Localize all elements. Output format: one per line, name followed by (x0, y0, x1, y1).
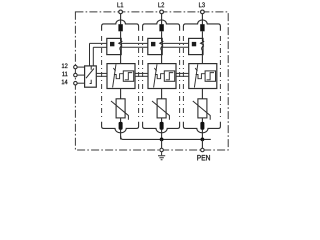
module boundary dash-dot right edge pole L2 (179, 36, 181, 118)
wire riser remote contact to lower bus (92, 47, 94, 66)
wire disconnector to spark gap pole L1 (120, 55, 122, 64)
wire spark gap to varistor pole L1 (120, 89, 122, 99)
changeover contact symbol (86, 66, 94, 84)
terminal 12 (74, 65, 78, 69)
gas discharge tube G1 pole L1 (119, 122, 123, 130)
monitoring bus upper line segment 1 (90, 42, 107, 44)
varistor diagonal stroke pole L1 (111, 101, 128, 120)
wire terminal 12 to contact box (77, 66, 85, 68)
module bottom edge with arc hop pole L2 (143, 122, 180, 133)
module boundary dash-dot right edge pole L3 (219, 36, 221, 118)
ground symbol (158, 152, 165, 160)
trigger bus upper line segment 2 (135, 72, 148, 74)
fuse F3 thermal disconnector element pole L3 (200, 24, 204, 31)
follow-current limiter square pole L1 (123, 71, 133, 81)
monitoring bus lower line segment 3 (162, 46, 188, 48)
module top edge with arc hop over pole L3 conductor (183, 20, 220, 31)
gas discharge tube G3 pole L3 (200, 122, 204, 130)
terminal 11 (74, 73, 78, 77)
disconnection device with status indicator pole L1 (107, 38, 121, 54)
module bottom edge with arc hop pole L3 (183, 122, 220, 133)
wire fuse to disconnector box pole L3 (201, 31, 203, 38)
disconnection device with status indicator pole L2 (148, 38, 162, 54)
module top edge with arc hop over pole L2 conductor (143, 20, 180, 31)
junction node PEN branch (201, 138, 205, 142)
wire bus to earth terminal (161, 139, 163, 148)
monitoring bus upper line segment 3 (162, 42, 188, 44)
gas discharge tube G2 pole L2 (160, 122, 164, 130)
disconnector switch contact pole L1 (119, 38, 123, 54)
wire spark gap to varistor pole L2 (161, 89, 163, 99)
varistor RV3 pole L3 (198, 99, 207, 118)
wire riser remote contact to upper bus (89, 43, 91, 66)
encapsulated RADAX-Flow spark gap U3 pole L3 (189, 64, 217, 89)
spark gap electrode symbol pole L2 (154, 64, 157, 87)
remote signalling changeover contact box (85, 66, 97, 87)
varistor diagonal stroke pole L3 (193, 101, 210, 120)
module boundary dash-dot left edge pole L2 (142, 36, 144, 118)
spark gap trigger squiggle pole L3 (196, 74, 205, 79)
trigger bus upper line segment 3 (176, 72, 189, 74)
wire disconnector to spark gap pole L3 (201, 55, 203, 64)
wire gas discharge tube to PEN bus pole L1 (120, 130, 122, 140)
module bottom edge with arc hop pole L1 (102, 122, 139, 133)
encapsulated RADAX-Flow spark gap U2 pole L2 (148, 64, 176, 89)
spark gap trigger squiggle pole L1 (114, 74, 123, 79)
wire gas discharge tube to PEN bus pole L3 (201, 130, 203, 140)
varistor RV2 pole L2 (157, 99, 166, 118)
terminal label 12 (62, 64, 68, 69)
disconnection device with status indicator pole L3 (189, 38, 203, 54)
wire fuse to disconnector box pole L1 (120, 31, 122, 38)
trigger bus upper line segment 1 (96, 72, 107, 74)
wire disconnector to spark gap pole L2 (161, 55, 163, 64)
module boundary dash-dot left edge pole L1 (101, 36, 103, 118)
spark gap electrode symbol pole L3 (194, 64, 197, 87)
wire terminal 11 to contact box (77, 74, 85, 76)
wire varistor to gas discharge tube pole L3 (201, 118, 203, 122)
fuse F1 thermal disconnector element pole L1 (118, 24, 122, 31)
terminal label L2 (158, 2, 164, 7)
wire varistor to gas discharge tube pole L2 (161, 118, 163, 122)
terminal label L1 (117, 2, 123, 7)
wire gas discharge tube to PEN bus pole L2 (161, 130, 163, 140)
terminal L1 (119, 10, 123, 14)
terminal label L3 (199, 2, 205, 7)
status indicator window pole L2 (151, 42, 155, 46)
trigger bus lower line segment 1 (96, 75, 107, 77)
limiter waveform step pole L2 (166, 73, 173, 80)
wire L1 terminal down to fuse (120, 14, 122, 25)
module boundary dash-dot right edge pole L1 (138, 36, 140, 118)
terminal L3 (201, 10, 205, 14)
wire fuse to disconnector box pole L2 (161, 31, 163, 38)
varistor diagonal stroke pole L2 (152, 101, 169, 120)
encapsulated RADAX-Flow spark gap U1 pole L1 (107, 64, 135, 89)
terminal label 14 (62, 80, 68, 84)
follow-current limiter square pole L3 (205, 71, 215, 81)
device enclosure dash-dot case outline (75, 12, 228, 150)
monitoring bus lower line segment 2 (121, 46, 148, 48)
label PEN (197, 155, 210, 160)
wire bus to PEN terminal (201, 139, 203, 148)
module boundary dash-dot left edge pole L3 (182, 36, 184, 118)
wire varistor to gas discharge tube pole L1 (120, 118, 122, 122)
limiter waveform step pole L1 (125, 73, 132, 80)
trigger bus lower line segment 3 (176, 75, 189, 77)
trigger bus lower line segment 2 (135, 75, 148, 77)
monitoring bus upper line segment 2 (121, 42, 148, 44)
varistor RV1 pole L1 (116, 99, 125, 118)
PEN bus wire (121, 136, 211, 139)
spark gap electrode symbol pole L1 (113, 64, 116, 87)
status indicator window pole L3 (192, 42, 196, 46)
status indicator window pole L1 (110, 42, 114, 46)
terminal label 11 (62, 72, 67, 76)
disconnector switch contact pole L2 (160, 38, 164, 54)
terminal 14 (74, 81, 78, 85)
wire spark gap to varistor pole L3 (201, 89, 203, 99)
fuse F2 thermal disconnector element pole L2 (159, 24, 163, 31)
follow-current limiter square pole L2 (164, 71, 174, 81)
wire terminal 14 to contact box (77, 82, 85, 84)
wire L2 terminal down to fuse (161, 14, 163, 25)
junction node earth branch (160, 138, 164, 142)
monitoring bus lower line segment 1 (93, 46, 107, 48)
earth terminal (160, 148, 164, 152)
PEN terminal (201, 148, 205, 152)
wire L3 terminal down to fuse (201, 14, 203, 25)
limiter waveform step pole L3 (207, 73, 214, 80)
module top edge with arc hop over pole L1 conductor (102, 20, 139, 31)
terminal L2 (160, 10, 164, 14)
spark gap trigger squiggle pole L2 (155, 74, 164, 79)
disconnector switch contact pole L3 (201, 38, 205, 54)
